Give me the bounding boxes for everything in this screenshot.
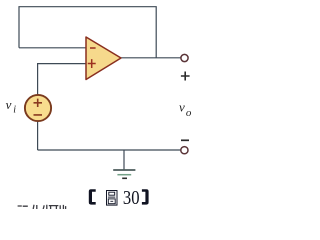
svg-text:30: 30 bbox=[123, 187, 140, 209]
svg-text:vo: vo bbox=[179, 100, 192, 119]
svg-text:vi: vi bbox=[6, 97, 17, 116]
